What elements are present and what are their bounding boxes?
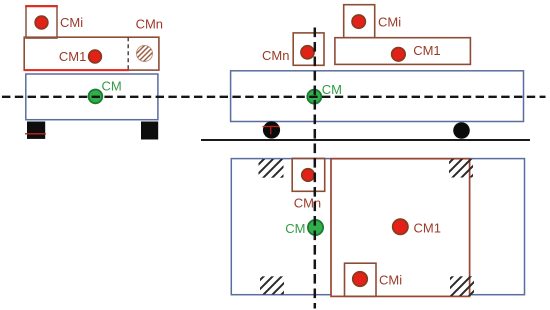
svg-text:CMn: CMn — [262, 48, 289, 63]
top view: payload area (red box) — [331, 159, 470, 297]
svg-text:CM: CM — [102, 79, 122, 94]
side view: red axle line over left wheel — [25, 133, 46, 135]
front view: ground line — [201, 139, 530, 141]
side view: CM green dot — [89, 90, 103, 104]
svg-text:CMi: CMi — [379, 273, 402, 288]
top view: front-left wheel (hatched) — [259, 159, 284, 178]
top view: CMi red dot — [353, 272, 367, 286]
svg-text:CM1: CM1 — [59, 49, 86, 64]
front view: CMi box — [344, 5, 375, 38]
front view: CMn red dot — [301, 46, 314, 59]
side view: CMn hatched circle — [137, 46, 153, 62]
vertical CM lateral dashed line — [314, 28, 317, 309]
svg-text:CM: CM — [285, 221, 305, 236]
svg-text:CMn: CMn — [136, 17, 163, 32]
top view: CM1 red dot — [393, 219, 408, 234]
top view: CM green dot — [308, 220, 323, 235]
side view: CMi box red top edge — [25, 5, 58, 7]
top view: vehicle body (blue box) — [231, 159, 524, 295]
svg-text:CM1: CM1 — [413, 43, 440, 58]
top view: CMn red dot — [302, 169, 314, 181]
side view: CM1 payload box — [24, 37, 159, 70]
top view: CMn box — [292, 158, 325, 191]
front view: right wheel (black circle) — [453, 122, 470, 139]
side view: right wheel (black square) — [141, 122, 158, 140]
side view: CM1 red dot — [89, 50, 102, 63]
svg-text:CMi: CMi — [378, 14, 401, 29]
front view: CMn box — [293, 33, 324, 65]
side view: CMi red dot — [35, 16, 48, 29]
svg-text:CMn: CMn — [294, 196, 321, 211]
front view: left wheel (black circle) — [263, 121, 280, 138]
top view: front-right wheel (hatched) — [449, 159, 473, 178]
side view: vehicle body (blue box) — [26, 74, 158, 120]
front view: vehicle body (blue box) — [231, 71, 524, 122]
side view: left wheel (black square) — [27, 122, 45, 139]
side view: CMi box — [26, 6, 57, 38]
front view: CM1 red dot — [392, 48, 405, 61]
horizontal CM height dashed line — [2, 96, 546, 98]
side view: CMn compartment dashed divider — [127, 37, 129, 70]
top view: rear-left wheel (hatched) — [260, 276, 284, 294]
front view: CM1 payload box — [335, 38, 471, 65]
svg-text:CM1: CM1 — [414, 220, 441, 235]
top view: CMi box — [345, 263, 377, 296]
front view: CM green dot — [307, 90, 321, 104]
top view: rear-right wheel (hatched) — [450, 276, 474, 296]
front view: red axle mark on left wheel — [263, 127, 280, 135]
front view: CMi red dot — [352, 15, 365, 28]
side view: CM1 box red bottom edge — [24, 69, 129, 71]
svg-text:CM: CM — [322, 82, 342, 97]
svg-text:CMi: CMi — [60, 15, 83, 30]
